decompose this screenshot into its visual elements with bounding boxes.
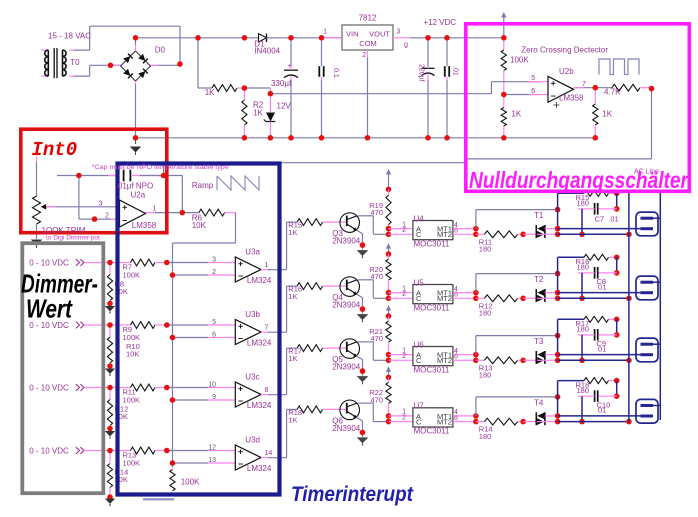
svg-text:Ramp: Ramp bbox=[192, 181, 214, 190]
svg-text:01: 01 bbox=[598, 282, 606, 291]
svg-text:T0: T0 bbox=[70, 58, 80, 67]
svg-text:C7 .01: C7 .01 bbox=[595, 214, 619, 223]
svg-text:MT2: MT2 bbox=[437, 356, 452, 365]
svg-text:6: 6 bbox=[212, 331, 216, 338]
svg-text:2: 2 bbox=[362, 52, 366, 59]
svg-text:2N3904: 2N3904 bbox=[332, 301, 361, 310]
svg-text:7: 7 bbox=[582, 81, 586, 88]
svg-text:14: 14 bbox=[265, 450, 273, 457]
svg-text:C: C bbox=[416, 356, 422, 365]
svg-text:2: 2 bbox=[105, 213, 109, 220]
svg-text:5: 5 bbox=[212, 319, 216, 326]
svg-text:T1: T1 bbox=[534, 211, 544, 220]
svg-text:220µf: 220µf bbox=[418, 64, 425, 82]
svg-text:100K: 100K bbox=[181, 478, 200, 487]
svg-text:470: 470 bbox=[370, 396, 383, 405]
svg-text:*Cap must be NPO temperature s: *Cap must be NPO temperature stable type bbox=[92, 164, 230, 171]
svg-text:MT2: MT2 bbox=[437, 294, 452, 303]
svg-text:2: 2 bbox=[402, 291, 406, 298]
svg-text:VOUT: VOUT bbox=[369, 30, 390, 39]
svg-text:LM324: LM324 bbox=[247, 339, 272, 348]
svg-text:IN4004: IN4004 bbox=[254, 47, 280, 56]
svg-text:U2a: U2a bbox=[131, 191, 146, 200]
svg-text:6: 6 bbox=[531, 88, 535, 95]
svg-text:Timerinterupt: Timerinterupt bbox=[291, 483, 414, 506]
svg-text:7812: 7812 bbox=[359, 14, 377, 23]
svg-text:180: 180 bbox=[577, 325, 590, 334]
svg-text:MOC3011: MOC3011 bbox=[414, 365, 450, 374]
svg-text:g: g bbox=[404, 42, 408, 49]
svg-text:2: 2 bbox=[212, 269, 216, 276]
svg-text:100K: 100K bbox=[123, 333, 141, 342]
svg-text:1: 1 bbox=[153, 206, 157, 213]
svg-text:1K: 1K bbox=[288, 292, 297, 301]
svg-text:+12 VDC: +12 VDC bbox=[423, 18, 456, 27]
svg-text:U4: U4 bbox=[414, 214, 425, 223]
svg-text:Int0: Int0 bbox=[32, 139, 78, 161]
svg-text:100K: 100K bbox=[123, 270, 141, 279]
svg-text:9: 9 bbox=[212, 394, 216, 401]
svg-text:LM358: LM358 bbox=[559, 94, 584, 103]
svg-text:2N3904: 2N3904 bbox=[332, 237, 361, 246]
svg-text:U5: U5 bbox=[414, 278, 425, 287]
svg-text:15 - 18 VAC: 15 - 18 VAC bbox=[48, 32, 91, 41]
svg-text:10: 10 bbox=[208, 382, 216, 389]
svg-text:LM324: LM324 bbox=[247, 276, 272, 285]
svg-text:180: 180 bbox=[479, 245, 492, 254]
svg-text:12V: 12V bbox=[277, 102, 292, 111]
svg-text:12: 12 bbox=[208, 445, 216, 452]
svg-text:2N3904: 2N3904 bbox=[332, 424, 361, 433]
svg-text:T2: T2 bbox=[534, 275, 544, 284]
svg-text:C: C bbox=[416, 230, 422, 239]
svg-text:2: 2 bbox=[402, 353, 406, 360]
svg-text:1: 1 bbox=[323, 29, 327, 36]
svg-text:U6: U6 bbox=[414, 340, 425, 349]
svg-text:01: 01 bbox=[598, 344, 606, 353]
svg-text:180: 180 bbox=[479, 371, 492, 380]
svg-text:LM324: LM324 bbox=[247, 464, 272, 473]
svg-text:1K: 1K bbox=[288, 354, 297, 363]
svg-text:LM324: LM324 bbox=[247, 401, 272, 410]
svg-text:MOC3011: MOC3011 bbox=[414, 239, 450, 248]
svg-text:5: 5 bbox=[531, 75, 535, 82]
svg-text:01: 01 bbox=[598, 406, 606, 415]
svg-text:+: + bbox=[287, 63, 291, 70]
svg-text:0.1: 0.1 bbox=[332, 68, 339, 78]
svg-text:to Digi Dimmer pot: to Digi Dimmer pot bbox=[46, 234, 100, 241]
svg-text:.01: .01 bbox=[452, 66, 459, 76]
svg-text:0 - 10 VDC: 0 - 10 VDC bbox=[29, 384, 69, 393]
svg-text:COM: COM bbox=[359, 39, 377, 48]
svg-text:MT2: MT2 bbox=[437, 418, 452, 427]
svg-text:13: 13 bbox=[208, 457, 216, 464]
svg-text:MOC3011: MOC3011 bbox=[414, 427, 450, 436]
svg-text:0 - 10 VDC: 0 - 10 VDC bbox=[29, 447, 69, 456]
svg-text:4.7K: 4.7K bbox=[604, 88, 621, 97]
svg-text:1K: 1K bbox=[205, 88, 215, 97]
svg-text:100K: 100K bbox=[510, 56, 529, 65]
svg-text:MT2: MT2 bbox=[437, 230, 452, 239]
svg-text:10K: 10K bbox=[192, 221, 207, 230]
svg-text:10K: 10K bbox=[126, 350, 139, 359]
svg-text:0 - 10 VDC: 0 - 10 VDC bbox=[29, 259, 69, 268]
svg-text:U2b: U2b bbox=[559, 67, 574, 76]
svg-text:100K: 100K bbox=[123, 458, 141, 467]
svg-text:Wert: Wert bbox=[26, 294, 73, 324]
svg-text:100K: 100K bbox=[123, 395, 141, 404]
svg-text:180: 180 bbox=[479, 309, 492, 318]
svg-text:T3: T3 bbox=[534, 337, 544, 346]
svg-text:3: 3 bbox=[397, 29, 401, 36]
svg-text:U7: U7 bbox=[414, 402, 425, 411]
svg-text:7: 7 bbox=[265, 325, 269, 332]
svg-text:.01µf NPO: .01µf NPO bbox=[116, 182, 154, 191]
svg-text:C: C bbox=[416, 418, 422, 427]
svg-text:1K: 1K bbox=[602, 110, 612, 119]
svg-text:2: 2 bbox=[402, 227, 406, 234]
svg-text:U3b: U3b bbox=[245, 310, 260, 319]
svg-text:2N3904: 2N3904 bbox=[332, 363, 361, 372]
svg-text:1K: 1K bbox=[511, 110, 521, 119]
svg-text:3: 3 bbox=[98, 201, 102, 208]
svg-text:Zero Crossing Dectector: Zero Crossing Dectector bbox=[521, 46, 608, 55]
svg-text:2: 2 bbox=[402, 414, 406, 421]
svg-text:470: 470 bbox=[370, 208, 383, 217]
svg-text:U3d: U3d bbox=[245, 435, 260, 444]
svg-text:470: 470 bbox=[370, 334, 383, 343]
svg-text:180: 180 bbox=[577, 263, 590, 272]
svg-text:Nulldurchgangsschälter: Nulldurchgangsschälter bbox=[469, 167, 689, 193]
svg-text:1K: 1K bbox=[288, 228, 297, 237]
svg-text:8: 8 bbox=[265, 387, 269, 394]
svg-text:LM358: LM358 bbox=[132, 221, 157, 230]
svg-text:MOC3011: MOC3011 bbox=[414, 303, 450, 312]
svg-text:330µf: 330µf bbox=[271, 79, 292, 88]
svg-text:3: 3 bbox=[212, 257, 216, 264]
svg-text:1K: 1K bbox=[288, 415, 297, 424]
svg-text:180: 180 bbox=[577, 386, 590, 395]
svg-text:470: 470 bbox=[370, 272, 383, 281]
svg-text:C: C bbox=[416, 294, 422, 303]
svg-text:1: 1 bbox=[265, 262, 269, 269]
svg-text:1K: 1K bbox=[253, 109, 263, 118]
svg-text:T4: T4 bbox=[534, 399, 544, 408]
svg-text:180: 180 bbox=[479, 432, 492, 441]
svg-text:180: 180 bbox=[577, 199, 590, 208]
svg-text:U3a: U3a bbox=[245, 247, 260, 256]
svg-text:D0: D0 bbox=[155, 46, 166, 55]
svg-text:VIN: VIN bbox=[346, 30, 359, 39]
svg-text:U3c: U3c bbox=[245, 372, 259, 381]
